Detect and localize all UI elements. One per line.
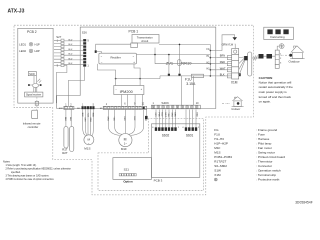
outdoor node dot (289, 54, 292, 57)
indoor unit dashed boundary (14, 25, 254, 195)
svg-text:ATX-J3: ATX-J3 (8, 8, 25, 14)
svg-text:X1M: X1M (214, 173, 221, 177)
svg-text:YLW: YLW (167, 113, 169, 117)
svg-text:: Connector: : Connector (256, 164, 272, 168)
svg-text:F1U: F1U (214, 133, 220, 137)
svg-text:BLK: BLK (220, 74, 225, 77)
swing motor M1S (84, 135, 94, 145)
svg-text:YLW: YLW (113, 117, 115, 121)
PCB2 box (18, 28, 53, 103)
varistor ZV1 (166, 54, 174, 76)
PCB1 outline (57, 27, 216, 108)
svg-text:RED: RED (92, 113, 94, 118)
svg-text:: Fan motor: : Fan motor (256, 146, 272, 150)
svg-text:BLU: BLU (69, 54, 73, 56)
connector S602 (152, 127, 180, 138)
field wire with slashes (252, 57, 259, 59)
svg-text:CAUTION: CAUTION (259, 76, 273, 80)
connector S601 (182, 127, 200, 138)
X1M wire lugs (227, 56, 231, 78)
svg-text:1 Size (length: 70 to width: 1 Size (length: 70 to width 13). (6, 164, 37, 167)
svg-text:FG: FG (207, 49, 210, 51)
svg-text:S601: S601 (186, 133, 194, 137)
svg-text:on again.: on again. (259, 100, 272, 104)
fan motor connector 12p (100, 102, 147, 110)
pad outdoor side (267, 54, 273, 59)
pad indoor side (259, 54, 264, 59)
pin labels FG H1 H2 H3 (207, 49, 211, 70)
switch S1W label box (28, 72, 36, 76)
svg-text:M1F: M1F (121, 147, 127, 151)
wire rectifier input to transmission tab (96, 44, 131, 50)
thermistor wires BLK (64, 110, 71, 127)
option pad S406 (145, 110, 147, 116)
wire fuse to bus (159, 76, 161, 79)
transmission riser (154, 48, 156, 64)
svg-text:3.15A: 3.15A (186, 82, 196, 86)
svg-text:RED: RED (196, 113, 198, 118)
terminal strip X1M (232, 44, 239, 79)
svg-text:BRN: BRN (174, 113, 176, 118)
wire B S26 to S32 (68, 67, 84, 107)
transmission circuit box (132, 35, 159, 44)
wire input to rectifier (97, 52, 102, 54)
fan motor wires (106, 110, 146, 136)
rectifier minus wire (97, 64, 115, 86)
notes block (3, 160, 71, 182)
signal receiver symbol (28, 79, 41, 93)
svg-text:X1M: X1M (231, 80, 238, 84)
svg-text:: Terminal strip: : Terminal strip (256, 173, 276, 177)
transmission tab (131, 43, 138, 48)
IPM output wires (121, 95, 142, 107)
svg-text:controller: controller (28, 125, 39, 129)
LED2 H2P (19, 49, 40, 53)
right bus + pin stubs (155, 44, 217, 76)
svg-text:: Protective earth: : Protective earth (256, 178, 279, 182)
svg-text:S6~S802: S6~S802 (214, 164, 227, 168)
svg-text:ORG: ORG (89, 118, 91, 123)
svg-text:turned off and then back: turned off and then back (259, 95, 292, 99)
cable terminal pad (244, 56, 248, 60)
rectifier plus wire (134, 64, 140, 86)
svg-text:Infrared remote: Infrared remote (23, 121, 41, 125)
svg-text:IPM200: IPM200 (120, 90, 133, 94)
svg-text:BLU: BLU (69, 39, 73, 41)
svg-text:BLU: BLU (69, 63, 73, 65)
svg-text:3D058454F: 3D058454F (295, 200, 313, 204)
outdoor house (290, 46, 304, 59)
svg-text:PNK: PNK (158, 113, 160, 118)
dc bus wire (116, 78, 160, 80)
svg-text:BLK: BLK (81, 113, 83, 117)
swing motor connector (77, 104, 95, 110)
svg-text:Rectifier: Rectifier (111, 55, 121, 59)
svg-text:restart automatically if the: restart automatically if the (259, 85, 294, 89)
svg-text:S1W: S1W (29, 73, 35, 76)
svg-text:S21: S21 (124, 168, 130, 172)
thermistor R1T (64, 127, 68, 149)
svg-text:M1S: M1S (214, 151, 220, 155)
svg-text:BLK: BLK (64, 117, 66, 122)
connector S27 (56, 35, 64, 67)
wire RED (217, 63, 232, 65)
svg-text:4 PCB3 is shown the case of: 4 PCB3 is shown the case of option conne… (6, 178, 55, 181)
outdoor terminal strip (275, 50, 282, 68)
thermistor connector S32 (59, 104, 74, 110)
svg-text:: Frame ground: : Frame ground (256, 128, 277, 132)
svg-text:FG: FG (214, 128, 219, 132)
svg-text:Notice that operation will: Notice that operation will (259, 80, 292, 84)
svg-text:H2P: H2P (35, 49, 40, 53)
svg-text:H1P~H2P: H1P~H2P (214, 142, 228, 146)
svg-text:ZV1: ZV1 (166, 60, 174, 65)
svg-text:BLU: BLU (69, 49, 73, 51)
svg-text:PCB 2: PCB 2 (27, 30, 37, 34)
connector S21 (119, 174, 136, 176)
fuse F1U wire (160, 75, 210, 77)
svg-text:WHT: WHT (164, 113, 166, 118)
svg-text:S1W: S1W (214, 169, 221, 173)
svg-text:GRN/YLW: GRN/YLW (222, 43, 234, 46)
svg-text:: Printed circuit board: : Printed circuit board (256, 155, 285, 159)
varistor NR10 (178, 44, 193, 76)
svg-text:M1S: M1S (84, 147, 90, 151)
S403 riser wires (182, 76, 194, 105)
svg-text:H1~H3: H1~H3 (214, 137, 224, 141)
svg-text:1~: 1~ (124, 142, 128, 146)
rectifier input pin (95, 50, 97, 53)
svg-text:ORG: ORG (106, 117, 108, 122)
swing motor wires (81, 109, 94, 135)
svg-text:BLU: BLU (69, 44, 73, 46)
svg-text:BLU: BLU (133, 117, 135, 121)
svg-text:NR10: NR10 (181, 60, 192, 65)
svg-text:M1F: M1F (214, 146, 220, 150)
svg-text:: Fuse: : Fuse (256, 133, 265, 137)
svg-text:H1P: H1P (35, 42, 40, 46)
svg-text:YLW: YLW (86, 113, 88, 117)
wire A receiver to PCB1 (56, 65, 67, 103)
svg-text:Option: Option (123, 180, 133, 184)
legend earth symbol (214, 178, 217, 181)
legend (214, 128, 285, 182)
svg-text:PCB 1: PCB 1 (129, 30, 139, 34)
svg-text:R2T: R2T (62, 151, 68, 155)
svg-text:main power supply is: main power supply is (259, 90, 288, 94)
svg-text:RED: RED (220, 61, 225, 64)
signal receiver label box (25, 92, 43, 97)
svg-text:2 Refer to purchasing specif: 2 Refer to purchasing specification AED0… (6, 168, 72, 171)
svg-text:: Pilot lamp: : Pilot lamp (256, 142, 271, 146)
field wiring legend box (264, 27, 294, 39)
LED1 H1P (19, 42, 40, 46)
svg-text:3 This drawing was drawn on: 3 This drawing was drawn on CAD system. (6, 175, 50, 178)
wire BLK (217, 75, 232, 77)
earth wire GRN/YLW (217, 35, 237, 51)
cable bar (248, 52, 252, 76)
svg-text:Notes: Notes (3, 160, 10, 164)
svg-text:circuit: circuit (141, 39, 148, 43)
svg-text:WHT: WHT (220, 67, 226, 70)
dash-dot to outdoor (281, 54, 289, 56)
svg-text:PCB1~PCB3: PCB1~PCB3 (214, 155, 232, 159)
svg-text:S602: S602 (162, 133, 170, 137)
svg-text:PCB 3: PCB 3 (154, 178, 163, 182)
wires S403 to S602/S601 (154, 110, 197, 128)
svg-text:: Thermistor: : Thermistor (256, 160, 272, 164)
svg-text:BRN: BRN (220, 55, 225, 58)
wire BRN (217, 57, 232, 59)
connector S403 (151, 101, 200, 109)
infrared remote controller (23, 97, 41, 129)
connector S26 (82, 31, 90, 68)
PCB3 box (152, 124, 200, 178)
wires S1W to receiver (34, 76, 36, 84)
svg-text:: Harness: : Harness (256, 137, 270, 141)
svg-text:RED: RED (123, 117, 125, 122)
svg-text:GRY: GRY (84, 118, 86, 123)
svg-text:Outdoor: Outdoor (289, 59, 300, 63)
fan motor M1F (119, 134, 132, 147)
fan-in diagonals to cable (239, 57, 245, 76)
svg-text:S26: S26 (82, 31, 87, 35)
svg-text:GRY: GRY (154, 113, 156, 118)
svg-text:BLK: BLK (69, 117, 71, 122)
wire A2 rectifier right (136, 54, 210, 56)
svg-text:: Operation switch: : Operation switch (256, 169, 281, 173)
svg-text:R1T,R2T: R1T,R2T (214, 160, 226, 164)
indoor house (222, 97, 244, 107)
svg-text:Field wiring: Field wiring (270, 35, 285, 39)
svg-text:Signal receiver: Signal receiver (26, 94, 41, 97)
svg-text:LED1: LED1 (19, 42, 26, 46)
fuse F1U body (192, 74, 204, 77)
circled earth (277, 44, 284, 50)
svg-text:Indoor: Indoor (232, 107, 241, 111)
caution block (259, 76, 294, 104)
wire transmission to right bus (159, 44, 210, 46)
IPM200 module (114, 86, 144, 95)
svg-text:BLU: BLU (161, 113, 163, 117)
rectifier U (99, 53, 136, 64)
svg-text:F1U: F1U (185, 77, 192, 81)
option dashed boundary (98, 119, 204, 191)
svg-text:LED2: LED2 (19, 49, 26, 53)
thermistor R2T (70, 127, 74, 152)
wire WHT (217, 69, 232, 71)
wires S27 to S26 (54, 39, 83, 65)
svg-text:: Swing motor: : Swing motor (256, 151, 275, 155)
S21 box (113, 158, 152, 180)
svg-text:BLU: BLU (69, 58, 73, 60)
svg-text:specified.: specified. (11, 172, 21, 174)
svg-text:ORG: ORG (171, 113, 173, 118)
svg-text:S403: S403 (161, 101, 169, 105)
